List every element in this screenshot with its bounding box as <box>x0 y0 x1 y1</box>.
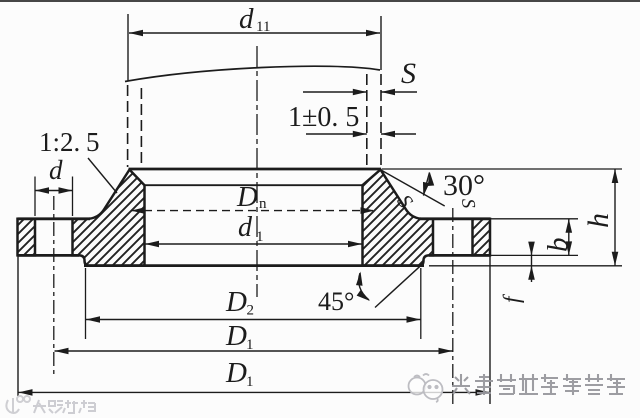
b top extension line <box>491 218 578 220</box>
45 degree chamfer annotation <box>318 266 421 316</box>
svg-text:11: 11 <box>256 19 270 35</box>
dimension Dn (dashed dim line) <box>131 181 375 214</box>
svg-text:1±0. 5: 1±0. 5 <box>288 102 359 133</box>
raised face bottom extension line <box>429 265 622 267</box>
neck top face edge <box>129 168 382 171</box>
OD left edge extended down <box>17 255 19 396</box>
dimension 1±0.5 <box>288 102 416 137</box>
flange bottom face left <box>18 254 80 257</box>
top border line <box>0 0 640 2</box>
svg-text:d: d <box>239 3 254 35</box>
svg-text:1: 1 <box>246 337 254 353</box>
vertical centerline <box>256 46 258 297</box>
svg-text:d: d <box>238 212 253 243</box>
svg-text:D: D <box>225 357 247 389</box>
dimension h <box>582 169 618 266</box>
dimension D1 (outer) <box>19 357 490 396</box>
pipe outer left solid extension (d11) <box>127 14 129 81</box>
dimension b <box>542 219 574 256</box>
svg-text:d: d <box>49 155 63 185</box>
b bottom extension line <box>491 254 578 256</box>
svg-text:D: D <box>225 320 247 352</box>
flange section right hub (hatched) <box>363 170 434 266</box>
30 degree bevel annotation <box>381 169 485 206</box>
flange section left hub (hatched) <box>73 170 145 266</box>
taper label 1:2.5 with leader <box>39 127 117 193</box>
dimension D1 (bolt circle) <box>55 320 453 354</box>
dimension d1 (bore) <box>145 212 362 247</box>
svg-text:b: b <box>542 238 574 253</box>
dimension f <box>499 242 535 303</box>
dimension S (pipe wall) <box>303 57 417 95</box>
bolt hole right wall lines <box>432 219 434 256</box>
watermark logo left <box>6 396 30 413</box>
svg-text:1: 1 <box>246 374 254 390</box>
bolt centerline left <box>53 196 55 376</box>
svg-text:h: h <box>582 213 615 228</box>
svg-text:1:2.: 1:2. <box>39 127 80 157</box>
bolt hole left wall lines <box>34 219 36 256</box>
dimension d (bolt hole) <box>35 155 73 216</box>
svg-text:1: 1 <box>256 229 264 245</box>
dimension D2 <box>86 268 421 339</box>
pipe outer left hidden line <box>127 85 129 167</box>
svg-text:S: S <box>401 57 416 90</box>
pipe break arc <box>125 66 380 81</box>
OD right edge extended down <box>489 255 491 404</box>
raised face bottom edge <box>84 264 424 267</box>
watermark text left (simulated glyph strokes) <box>33 400 95 413</box>
svg-text:5: 5 <box>86 127 100 157</box>
bolt centerline right <box>452 208 454 406</box>
flange section right-outer ring (hatched) <box>473 219 491 256</box>
svg-text:45°: 45° <box>318 287 354 316</box>
flange top face right <box>420 217 490 220</box>
dimension d11 <box>129 3 380 36</box>
svg-text:2: 2 <box>247 303 255 319</box>
flange bottom face right <box>429 254 490 257</box>
svg-text:D: D <box>225 286 247 318</box>
bore chamfer edge <box>145 184 363 186</box>
watermark text right (simulated glyph strokes) <box>452 374 625 395</box>
pipe outer right hidden line <box>380 74 382 167</box>
flange section left-outer ring (hatched) <box>18 219 36 256</box>
h extension top line <box>382 168 622 170</box>
pipe inner right hidden line <box>366 74 368 167</box>
flange top face left <box>18 217 91 220</box>
watermark logo right <box>409 374 443 402</box>
svg-text:n: n <box>259 196 267 212</box>
pipe inner left hidden line <box>140 88 142 168</box>
svg-text:D: D <box>236 181 258 213</box>
pipe outer right solid extension (d11) <box>380 16 382 70</box>
